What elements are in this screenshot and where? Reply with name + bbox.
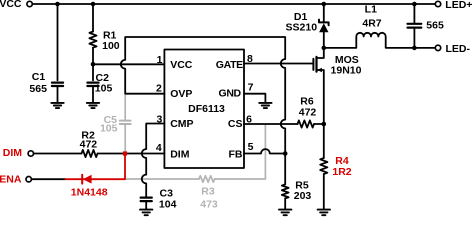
wire pin 6 CS to R6 (244, 123, 298, 125)
terminal DIM (28, 151, 33, 156)
svg-text:CS: CS (228, 118, 243, 130)
resistor R5 203 (282, 184, 289, 198)
resistor R1 100 (89, 32, 96, 48)
node red junction on DIM wire (123, 151, 127, 155)
capacitor C3 104 (141, 198, 152, 202)
svg-text:LED-: LED- (446, 43, 471, 55)
svg-text:DIM: DIM (170, 149, 190, 161)
svg-text:5: 5 (248, 141, 254, 153)
wire pin 7 GND to ground (244, 94, 265, 103)
diode D2 1N4148 (red, active path) (66, 154, 126, 184)
wire junction to C2 (92, 64, 94, 80)
svg-text:SS210: SS210 (286, 22, 318, 34)
node junction R1/C2/pin1 (91, 62, 96, 67)
capacitor C4 565 (output) (413, 4, 415, 48)
svg-text:472: 472 (80, 138, 98, 150)
ground (R4) (318, 210, 330, 216)
wire VCC top rail (33, 3, 436, 5)
wire rail to R1 (92, 4, 94, 32)
wire source node to R4 (323, 124, 325, 158)
svg-text:19N10: 19N10 (331, 65, 362, 77)
wire C3 to ground (145, 202, 147, 209)
transistor Q1 MOS 19N10 (312, 59, 314, 70)
wire ENA to diode (32, 178, 66, 180)
terminal LED+ (435, 1, 440, 6)
node junction switch node (322, 46, 327, 51)
svg-text:C1: C1 (32, 71, 46, 83)
terminal ENA (26, 177, 31, 182)
ground (R5) (279, 210, 291, 216)
svg-text:DIM: DIM (3, 147, 23, 159)
svg-text:4: 4 (156, 142, 162, 154)
svg-text:565: 565 (29, 83, 47, 95)
svg-text:1N4148: 1N4148 (71, 186, 108, 198)
wire rail to C1 (57, 4, 59, 80)
resistor R6 472 (298, 120, 315, 127)
node junction FB/OVP/R5 (283, 151, 288, 156)
svg-text:1: 1 (157, 54, 163, 66)
capacitor C2 105 (87, 83, 98, 86)
svg-text:LED+: LED+ (445, 0, 472, 11)
svg-text:R3: R3 (201, 185, 215, 197)
capacitor C5 (gray, unused) (120, 95, 131, 153)
node junction on rail at output cap (412, 2, 417, 7)
node junction CS/source (322, 122, 327, 127)
svg-text:472: 472 (299, 106, 317, 118)
wire R5 to ground (284, 198, 286, 209)
wire R6 to source node (314, 123, 324, 125)
svg-text:ENA: ENA (0, 173, 22, 185)
wire pin 5 FB with hop over gray wire, to FB node (244, 149, 285, 153)
resistor R4 1R2 (320, 158, 327, 174)
svg-text:OVP: OVP (170, 88, 192, 100)
svg-text:C3: C3 (160, 187, 174, 199)
ground (C1) (51, 103, 63, 108)
inductor L1 4R7 (324, 33, 436, 48)
svg-text:4R7: 4R7 (362, 17, 381, 29)
terminal LED- (435, 45, 440, 50)
wire FB node to R5 (284, 154, 286, 185)
wire pin 3 CMP down to C3 (hops over DIM wire and gray wire) (142, 124, 165, 197)
wire R1 to junction (92, 48, 94, 65)
terminal VCC (27, 1, 32, 6)
svg-text:473: 473 (200, 198, 218, 210)
svg-text:565: 565 (426, 19, 444, 31)
svg-text:104: 104 (159, 199, 177, 211)
svg-text:100: 100 (102, 40, 120, 52)
node junction on rail at D1 (322, 2, 327, 7)
wire OVP net: pin2 up over pin1 wire, across top, down to FB node (with hops) (121, 37, 285, 154)
capacitor C1 565 (52, 83, 63, 86)
wire junction to pin 1 VCC (93, 63, 164, 65)
svg-text:CMP: CMP (170, 118, 193, 130)
svg-text:DF6113: DF6113 (188, 103, 225, 115)
ground (C3) (140, 210, 152, 216)
node junction on rail at C1 (55, 2, 60, 7)
ground (pin 7) (259, 103, 271, 108)
node junction on rail at R1 (91, 2, 96, 7)
wire pin 8 GATE to MOSFET gate (244, 63, 313, 65)
svg-text:105: 105 (95, 82, 113, 94)
svg-text:GATE: GATE (216, 59, 243, 71)
svg-text:7: 7 (248, 82, 254, 94)
wire C1 to ground (57, 87, 59, 103)
node junction on LED- wire (412, 46, 417, 51)
wire R4 to ground (323, 174, 325, 210)
resistor R2 472 (82, 150, 98, 157)
op-amp U1 DF6113 IC body (164, 50, 244, 169)
wire R2 to pin 4 DIM (98, 153, 165, 155)
svg-text:L1: L1 (365, 4, 377, 16)
svg-text:VCC: VCC (170, 59, 193, 71)
ground (C2) (87, 103, 99, 108)
resistor R3 (gray, unused) with wire to CS and FB nets (126, 125, 265, 182)
svg-text:203: 203 (294, 190, 312, 202)
svg-text:FB: FB (229, 149, 243, 161)
svg-text:1R2: 1R2 (332, 166, 351, 178)
wire C2 to ground (92, 87, 94, 103)
diode D1 SS210 (schottky) (323, 4, 325, 48)
wire DIM to R2 (34, 153, 82, 155)
svg-text:VCC: VCC (0, 0, 22, 10)
svg-text:105: 105 (100, 122, 118, 134)
svg-text:GND: GND (219, 88, 242, 100)
